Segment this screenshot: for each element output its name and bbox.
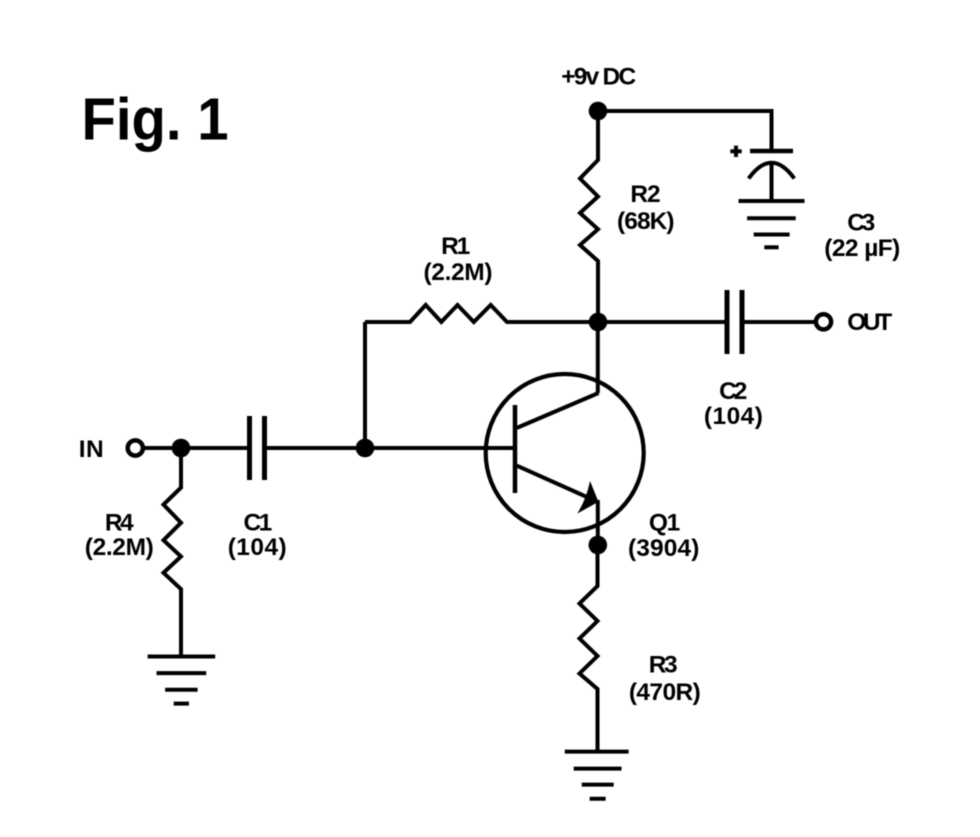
svg-text:OUT: OUT [847,309,892,336]
svg-text:R4: R4 [105,510,134,537]
svg-text:(2.2M): (2.2M) [424,259,493,286]
svg-text:(104): (104) [704,403,763,430]
svg-text:C2: C2 [719,378,747,405]
svg-text:R2: R2 [630,181,660,208]
svg-text:(104): (104) [228,534,287,561]
svg-text:Q1: Q1 [649,510,680,537]
svg-text:Fig. 1: Fig. 1 [82,85,229,152]
svg-text:+9v DC: +9v DC [561,63,636,90]
svg-text:(3904): (3904) [628,535,700,562]
svg-text:C1: C1 [244,510,273,537]
svg-text:(68K): (68K) [617,208,675,235]
svg-text:(2.2M): (2.2M) [85,534,154,561]
svg-text:(22 µF): (22 µF) [824,235,900,262]
svg-text:R1: R1 [441,233,470,260]
svg-text:(470R): (470R) [629,679,701,706]
svg-text:C3: C3 [847,210,875,237]
svg-text:R3: R3 [649,652,678,679]
svg-text:IN: IN [79,436,104,463]
